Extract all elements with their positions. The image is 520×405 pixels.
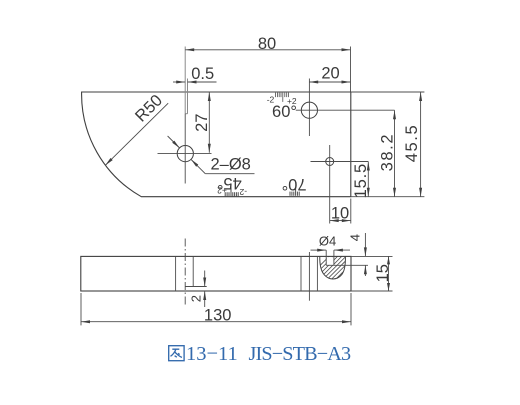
dim 20 right arrow — [342, 81, 351, 84]
svg-text:2–Ø8: 2–Ø8 — [211, 156, 251, 174]
dim 15 top arrow — [387, 256, 390, 264]
dim 45.5 bottom extension line — [351, 196, 425, 198]
dim 4 down arrow — [364, 247, 367, 256]
svg-text:15.5: 15.5 — [352, 163, 370, 198]
dim 15.5 top arrow — [367, 162, 370, 171]
svg-text:45.5: 45.5 — [403, 124, 421, 163]
dim 10 line — [330, 220, 351, 222]
svg-text:80: 80 — [258, 35, 276, 53]
dia4 hole left edge / extension — [325, 250, 327, 265]
hole 3 horizontal centerline / 15.5 extension — [311, 161, 369, 163]
dim 4 up arrow — [364, 265, 367, 274]
dim 130 right arrow — [342, 320, 351, 323]
dim 10 right extension line — [350, 199, 352, 224]
hole 2 (2-dia8) circle — [301, 102, 317, 118]
dim 2 lower shaft — [204, 291, 206, 307]
dia4 hole in section (white slot) — [327, 257, 334, 265]
dim 45.5 bottom arrow — [419, 188, 422, 197]
dim 45.5 line — [420, 92, 422, 197]
2-dia8 label underline — [205, 173, 254, 175]
dim dia4 left-pointing arrow — [334, 249, 343, 252]
R50 arrowhead on arc — [105, 158, 113, 165]
hole 1 diameter leader 45deg lower segment to label — [191, 159, 205, 173]
60 degree angle label with +2/-2 tolerance ticks — [275, 93, 277, 98]
dim 27 top arrow — [208, 92, 211, 101]
dim 15.5 bottom arrow — [367, 188, 370, 197]
hole 3 (dia4) circle — [326, 158, 334, 166]
svg-text:20: 20 — [321, 65, 339, 83]
svg-text:27: 27 — [193, 114, 211, 132]
svg-text:Ø4: Ø4 — [319, 234, 336, 249]
dim 80 left arrow — [185, 48, 194, 51]
dim 130 right extension line — [350, 293, 352, 325]
dim 20 left arrow — [309, 81, 318, 84]
caption chinese character tu (figure) drawn as strokes — [169, 346, 184, 361]
dim 130 left extension line — [80, 293, 82, 325]
hole 2 horizontal centerline / 60deg leader / 38.2 extension — [296, 109, 395, 111]
hole 1 left silhouette edge (side view) — [175, 256, 177, 291]
hole 1 bottom / 2 dim extension line — [185, 286, 207, 288]
dia4 hole right edge / extension — [333, 250, 335, 265]
dim dia4 right tail — [334, 249, 350, 251]
dim 15 line — [388, 256, 390, 291]
svg-text:0.5: 0.5 — [191, 65, 214, 83]
45 degree angle label (upside down) with tolerance ticks — [217, 174, 247, 197]
dim 45.5 top arrow — [419, 92, 422, 101]
dim 27 bottom arrow — [208, 144, 211, 153]
hole 1 right silhouette edge (side view) — [192, 256, 194, 286]
dim 38.2 line — [394, 110, 396, 197]
R50 leader line — [105, 103, 168, 165]
dim 27 line — [208, 92, 210, 153]
dim 10 left arrow — [330, 219, 339, 222]
notch slot left edge / 80+0.5 dim extension line — [184, 47, 186, 114]
dim 2 up arrow — [203, 291, 206, 300]
svg-text:38.2: 38.2 — [378, 133, 396, 172]
hole 2 vertical centerline / 20 dim extension — [308, 79, 310, 137]
dim dia4 right-pointing arrow — [317, 249, 326, 252]
dim 15 top extension line — [351, 255, 393, 257]
dim 38.2 bottom arrow — [393, 188, 396, 197]
side view rectangle 130x15 — [81, 256, 351, 291]
70 degree angle label (upside down) with ticks — [282, 175, 307, 196]
dim 80 right arrow — [342, 48, 351, 51]
hole 3 vertical centerline / 10 dim extension — [329, 145, 331, 224]
svg-text:13−11: 13−11 — [186, 343, 238, 365]
svg-text:45°: 45° — [217, 174, 242, 192]
dim dia4 left tail — [311, 249, 327, 251]
dim 15 bottom extension line — [351, 290, 393, 292]
dim 80/20 right extension line — [350, 47, 352, 92]
svg-text:15: 15 — [374, 264, 392, 282]
top view plate outline with R50 corner — [82, 92, 351, 197]
hole 1 (2-dia8) circle — [177, 146, 193, 162]
dim 20 line — [309, 81, 350, 83]
dim 4 lower shaft — [364, 265, 366, 276]
svg-text:4: 4 — [348, 234, 363, 241]
dim 4 upper shaft — [364, 233, 366, 256]
svg-text:60°: 60° — [272, 103, 297, 121]
dim 15.5 line — [367, 162, 369, 197]
dim 0.5 left tail — [173, 81, 185, 83]
notch slot right edge / 0.5 dim extension line — [187, 79, 189, 114]
arrowhead at hole 1 upper-left — [172, 141, 179, 148]
dim 130 left arrow — [81, 320, 90, 323]
svg-text:JIS−STB−A3: JIS−STB−A3 — [249, 343, 352, 365]
dim 15 bottom arrow — [387, 283, 390, 291]
svg-text:2: 2 — [189, 295, 204, 302]
svg-text:R50: R50 — [132, 91, 166, 125]
hole 1 centerline (side view) — [184, 239, 186, 305]
dim 0.5 left-pointing arrow — [188, 81, 197, 84]
notch slot bottom — [185, 113, 187, 115]
dim 0.5 right tail — [188, 81, 217, 83]
hole 2 centerline (side view) — [308, 252, 310, 301]
dim 0.5 right-pointing arrow — [176, 81, 185, 84]
hole 2 right silhouette edge (side view) — [316, 256, 318, 291]
broken-out section pocket outline — [320, 256, 346, 279]
hole 2 left silhouette edge (side view) — [300, 256, 302, 291]
dim 2 upper shaft — [204, 271, 206, 287]
hole 1 diameter leader 45deg upper segment — [168, 136, 180, 148]
dim 2 down arrow — [203, 278, 206, 287]
dim 80 line — [185, 49, 350, 51]
dia4 hole bottom / 4 dim extension line — [326, 264, 368, 266]
svg-text:10: 10 — [331, 204, 349, 222]
hole 1 horizontal centerline / 27 dim extension — [158, 153, 212, 155]
dim 45.5 top extension line — [351, 91, 425, 93]
dim 38.2 top arrow — [393, 110, 396, 119]
dim 10 right arrow — [342, 219, 351, 222]
dim 130 line — [81, 321, 351, 323]
arrowhead at hole 1 lower-right — [191, 159, 198, 166]
svg-text:130: 130 — [204, 307, 232, 325]
hole 1 vertical centerline — [184, 114, 186, 184]
svg-text:70°: 70° — [282, 175, 307, 193]
